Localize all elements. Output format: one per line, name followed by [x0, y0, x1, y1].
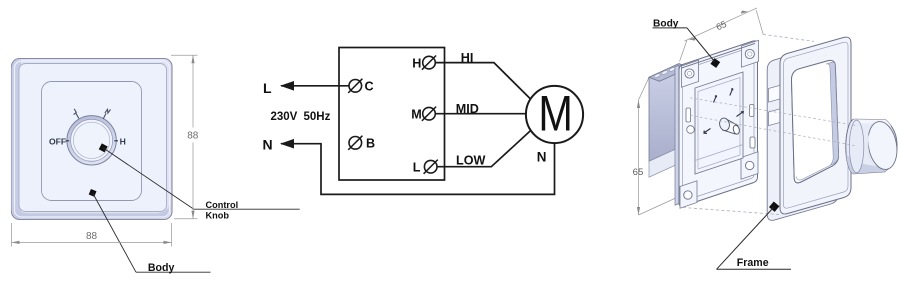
svg-text:65: 65 — [633, 167, 644, 178]
terminal H — [423, 56, 436, 69]
svg-text:Body: Body — [653, 18, 679, 29]
svg-text:LOW: LOW — [456, 154, 485, 168]
knob bottom shade — [846, 154, 894, 174]
plate slot right lower — [750, 137, 755, 148]
plate rim line — [683, 47, 755, 200]
knob face — [865, 119, 900, 172]
label Control Knob — [193, 208, 299, 210]
callout line control knob — [103, 148, 193, 209]
terminal L — [424, 160, 437, 173]
svg-text:230V50Hz: 230V50Hz — [271, 111, 331, 123]
frame window cutout — [792, 60, 839, 182]
frame clip upper — [769, 85, 780, 102]
tiny screw mark 3 — [704, 129, 711, 134]
body marker — [710, 58, 720, 68]
dimension 88 right — [171, 55, 198, 218]
callout line body — [93, 193, 136, 272]
arrow L — [280, 81, 294, 91]
wire N — [281, 143, 555, 195]
svg-text:HI: HI — [461, 51, 474, 65]
svg-text:N: N — [537, 149, 547, 164]
tick L (low speed mark) — [74, 109, 79, 119]
plate hole left — [687, 126, 695, 134]
body back box side face — [649, 64, 679, 162]
frame marker — [769, 201, 779, 211]
knob rim crease — [849, 120, 863, 173]
label Body — [136, 271, 211, 273]
svg-text:OFF: OFF — [49, 136, 66, 146]
svg-text:88: 88 — [86, 231, 98, 242]
body front face — [19, 64, 167, 212]
vent slot 3 — [669, 67, 676, 72]
arrow N — [280, 139, 294, 149]
construction line axis B (dotted) — [690, 115, 856, 146]
motor M — [526, 86, 583, 143]
svg-text:N: N — [263, 137, 273, 153]
spindle — [723, 119, 739, 134]
central mechanism panel — [695, 72, 743, 174]
svg-text:Knob: Knob — [206, 210, 230, 220]
body face plate bevel — [15, 61, 170, 217]
svg-text:Control: Control — [206, 200, 239, 210]
svg-text:H: H — [120, 136, 126, 146]
svg-text:Frame: Frame — [737, 257, 769, 269]
svg-text:M: M — [538, 84, 573, 141]
terminal M — [423, 107, 436, 120]
screw boss top-right — [742, 40, 759, 67]
tiny screw mark 2 — [730, 89, 733, 96]
screw boss bottom-left — [680, 181, 697, 208]
dimension 88 bottom — [12, 223, 172, 247]
frame window bottom inner line — [796, 165, 830, 180]
frame window right wall — [826, 62, 839, 165]
panel step line — [695, 145, 743, 161]
marker on knob — [99, 143, 108, 152]
label Body (iso) — [653, 27, 688, 29]
control knob ring — [67, 116, 116, 165]
svg-text:MID: MID — [456, 102, 479, 116]
svg-text:88: 88 — [187, 131, 199, 142]
plate slot left — [686, 108, 691, 122]
dimension 65 top — [680, 8, 764, 62]
plate slot right upper — [750, 105, 754, 117]
body outer shell (front view) — [12, 59, 173, 220]
tiny screw mark 1 — [714, 96, 717, 103]
body back box top face — [649, 64, 690, 82]
terminal B — [349, 137, 362, 150]
construction line axis A (dotted) — [690, 98, 858, 126]
frame front bevel — [784, 42, 849, 208]
svg-text:L: L — [263, 80, 272, 96]
wire MID — [435, 113, 526, 115]
body left edge shade — [12, 59, 22, 219]
frame back shell — [767, 43, 838, 220]
knob cylinder body — [846, 119, 897, 174]
vent slot 1 — [654, 73, 661, 78]
switch box — [339, 48, 445, 181]
svg-text:H: H — [412, 56, 421, 70]
svg-text:C: C — [365, 80, 374, 94]
svg-text:Body: Body — [148, 262, 175, 274]
construction line top (dashed) — [763, 34, 814, 41]
plate top lip — [681, 43, 755, 68]
svg-text:B: B — [366, 137, 375, 151]
terminal C — [349, 80, 362, 93]
body back box bottom step — [649, 148, 679, 178]
dimension 65 left — [639, 77, 680, 215]
svg-text:M: M — [411, 107, 422, 121]
control knob mid ring — [71, 119, 113, 161]
construction line bottom (dashed) — [683, 208, 779, 215]
marker on body face — [89, 189, 97, 197]
knob face inner shade — [866, 129, 876, 168]
wire HI — [435, 63, 530, 99]
screw boss bottom-right — [741, 152, 758, 179]
svg-text:65: 65 — [715, 19, 729, 32]
inner face plate — [42, 82, 142, 201]
dash H — [114, 140, 118, 142]
tick M (med speed mark) — [103, 109, 110, 118]
svg-text:L: L — [413, 160, 421, 174]
body mounting plate — [679, 41, 758, 206]
frame callout line — [717, 208, 774, 270]
frame clip lower — [769, 109, 780, 126]
body bottom edge shade — [13, 204, 171, 219]
wire L to C — [281, 85, 349, 87]
wire LOW — [437, 130, 531, 167]
vent slot 2 — [661, 70, 668, 75]
label Frame — [717, 268, 792, 270]
knob top shade — [854, 119, 892, 126]
dash OFF — [66, 140, 70, 142]
control knob cap — [73, 122, 109, 158]
body plate edge face — [675, 65, 679, 205]
frame front face — [780, 37, 851, 214]
body callout line — [687, 28, 715, 62]
screw boss top-left — [682, 60, 699, 87]
tiny screw mark 4 — [737, 112, 744, 117]
